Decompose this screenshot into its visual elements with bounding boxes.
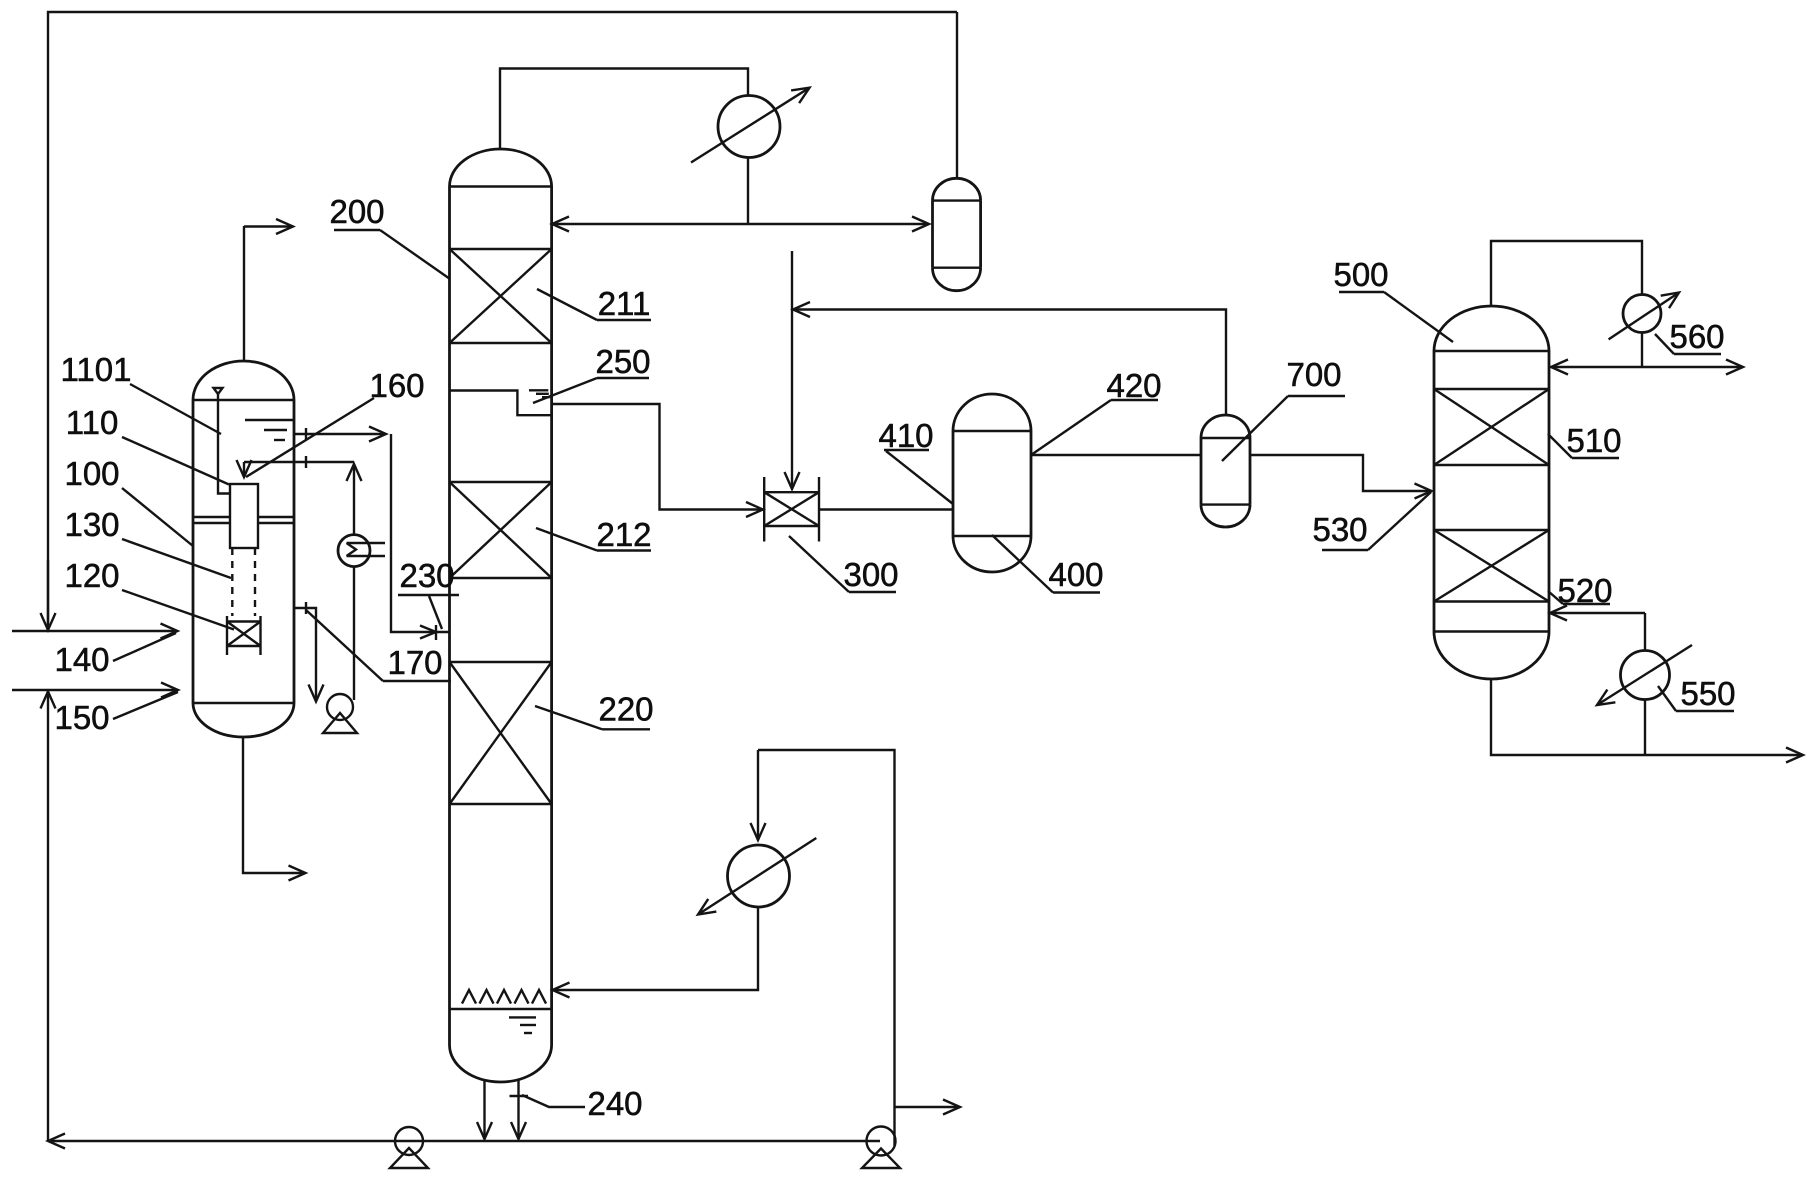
arrow 230 into column — [420, 626, 436, 639]
svg-text:160: 160 — [369, 367, 424, 404]
column 200 vapor distributor chevrons — [462, 990, 476, 1004]
svg-text:200: 200 — [329, 193, 384, 230]
svg-text:420: 420 — [1106, 367, 1161, 404]
heat exchanger E1 (circulation cooler) — [338, 535, 370, 567]
wire: distillate to drum — [749, 223, 929, 225]
wire: column 500 bottoms — [1491, 679, 1803, 755]
svg-text:240: 240 — [587, 1085, 642, 1122]
packed bed 211 — [450, 248, 552, 250]
tray 250 level mark — [529, 389, 548, 391]
arrow through condenser 560 — [1609, 293, 1679, 340]
reboiler 550 — [1621, 651, 1670, 700]
svg-text:211: 211 — [598, 285, 651, 322]
column 200 shell — [450, 149, 552, 186]
distributor 120 side bars — [226, 616, 228, 655]
vessel 400 shell — [953, 394, 1031, 431]
wire: reboiler return to column 200 — [553, 907, 759, 990]
svg-text:300: 300 — [843, 556, 898, 593]
column 200 sump level mark — [509, 1016, 536, 1018]
arrow through condenser — [691, 88, 810, 163]
wire: column 500 overhead — [1491, 241, 1642, 306]
wire: reboiler riser — [758, 750, 895, 1146]
tick on return line — [305, 456, 307, 468]
wire: down into reboiler E3 — [757, 750, 759, 840]
tick at 230 arrow — [435, 625, 437, 640]
wire: bottoms recycle riser — [47, 692, 49, 1142]
svg-text:110: 110 — [66, 404, 119, 441]
packed bed 510 — [1434, 388, 1549, 390]
svg-text:120: 120 — [64, 557, 119, 594]
svg-text:130: 130 — [64, 506, 119, 543]
svg-text:560: 560 — [1669, 318, 1724, 355]
svg-text:1101: 1101 — [61, 351, 132, 388]
distributor 120 box with X — [227, 620, 261, 622]
wire: overhead vapor line — [500, 69, 748, 150]
vessel 100 draft tube (110) — [230, 484, 258, 548]
vessel 100 liquid level mark — [245, 419, 294, 421]
wire: side draw pipe to valve 300 — [552, 404, 763, 510]
column 200 sump tray line — [450, 1008, 552, 1010]
wire: bottoms line to far left — [48, 1140, 880, 1142]
wire: reflux into column 500 — [1551, 366, 1642, 368]
packed bed 220 — [450, 661, 552, 663]
wire: 420 line vessel 400 to 700 — [1031, 454, 1201, 456]
wire: bottoms right outlet (240) — [517, 1080, 519, 1139]
wire: feed 150 — [12, 689, 178, 691]
wire: condenser 560 down leg — [1641, 333, 1643, 368]
svg-text:530: 530 — [1312, 511, 1367, 548]
svg-text:250: 250 — [595, 343, 650, 380]
wire: net bottoms draw — [895, 1106, 961, 1108]
wire: gas recycle from 700 to valve — [793, 310, 1226, 416]
svg-text:400: 400 — [1048, 556, 1103, 593]
wire: reflux into column 200 — [552, 223, 749, 225]
wire: return into draft tube — [244, 461, 354, 463]
vessel 100 shell (loop reactor) — [193, 361, 294, 400]
reflux drum D1 — [933, 178, 981, 200]
arrow through reboiler 550 — [1597, 645, 1692, 705]
wire: circulation draw 170 — [294, 608, 316, 702]
wire: top-left border recycle — [48, 12, 957, 627]
mixer 300 box with X — [764, 491, 819, 493]
column 500 shell — [1434, 306, 1549, 351]
arrow through reboiler E3 — [698, 838, 816, 915]
wire: drop line to valve 300 — [791, 251, 793, 489]
svg-text:230: 230 — [399, 557, 454, 594]
wire: vent arrow right — [244, 225, 293, 227]
wire: vessel 100 bottom product — [243, 737, 306, 873]
pump P2 (recycle pump) — [395, 1127, 423, 1155]
svg-text:220: 220 — [598, 691, 653, 728]
tick on 170 — [305, 602, 307, 614]
wire: drum top line from border — [956, 12, 958, 178]
pump P1 (vessel 100 circulation) — [327, 694, 353, 720]
condenser E2 (overhead) — [718, 96, 780, 158]
wire: vessel 100 top vent — [243, 226, 245, 361]
wire: reboiler return into column 500 — [1550, 612, 1645, 614]
exchanger E1 symbol — [347, 542, 386, 544]
wire: riser above cooler — [353, 464, 355, 535]
wire: valve 300 outlet to vessel 400 — [819, 508, 953, 510]
tick on 240 line — [510, 1095, 529, 1097]
chimney tray 250 step — [450, 391, 552, 416]
vessel 100 dashed tube 130 — [231, 548, 233, 616]
reboiler 550 riser upper — [1644, 613, 1646, 651]
condenser 560 — [1623, 295, 1661, 333]
wire: condenser to distillate line — [747, 158, 749, 225]
svg-text:212: 212 — [596, 516, 651, 553]
wire: 420 line through 700 to column 500 — [1250, 455, 1432, 491]
arrow: injection down into draft tube — [243, 462, 245, 477]
mixer 300 side bars — [763, 477, 765, 542]
tick on 160 — [305, 428, 307, 440]
wire: overflow 160 — [294, 433, 386, 435]
pump P3 (reboiler pump) — [867, 1127, 896, 1156]
wire: bottoms left outlet — [483, 1080, 485, 1139]
vessel 700 shell — [1201, 415, 1250, 438]
arrow: recycle joins 140 — [47, 560, 49, 630]
svg-text:700: 700 — [1286, 356, 1341, 393]
svg-text:510: 510 — [1566, 422, 1621, 459]
svg-text:150: 150 — [54, 699, 109, 736]
wire: pump discharge riser — [353, 567, 355, 701]
svg-text:550: 550 — [1680, 675, 1735, 712]
reboiler 550 riser lower — [1644, 700, 1646, 756]
svg-text:500: 500 — [1333, 256, 1388, 293]
svg-text:410: 410 — [878, 417, 933, 454]
wire: distillate product 500 — [1642, 366, 1743, 368]
packed bed 520 — [1434, 529, 1549, 531]
svg-text:100: 100 — [64, 455, 119, 492]
svg-text:140: 140 — [54, 641, 109, 678]
packed bed 212 — [450, 481, 552, 483]
vessel 100 dip tube — [218, 394, 230, 494]
vessel 100 tray lines — [193, 516, 230, 518]
reboiler E3 (column 200) — [728, 845, 790, 907]
wire: feed 140 — [12, 630, 178, 632]
wire: 160 jumper down to column (230) — [391, 434, 450, 632]
vessel 100 nabla vent symbol — [214, 388, 223, 394]
svg-text:170: 170 — [387, 644, 442, 681]
